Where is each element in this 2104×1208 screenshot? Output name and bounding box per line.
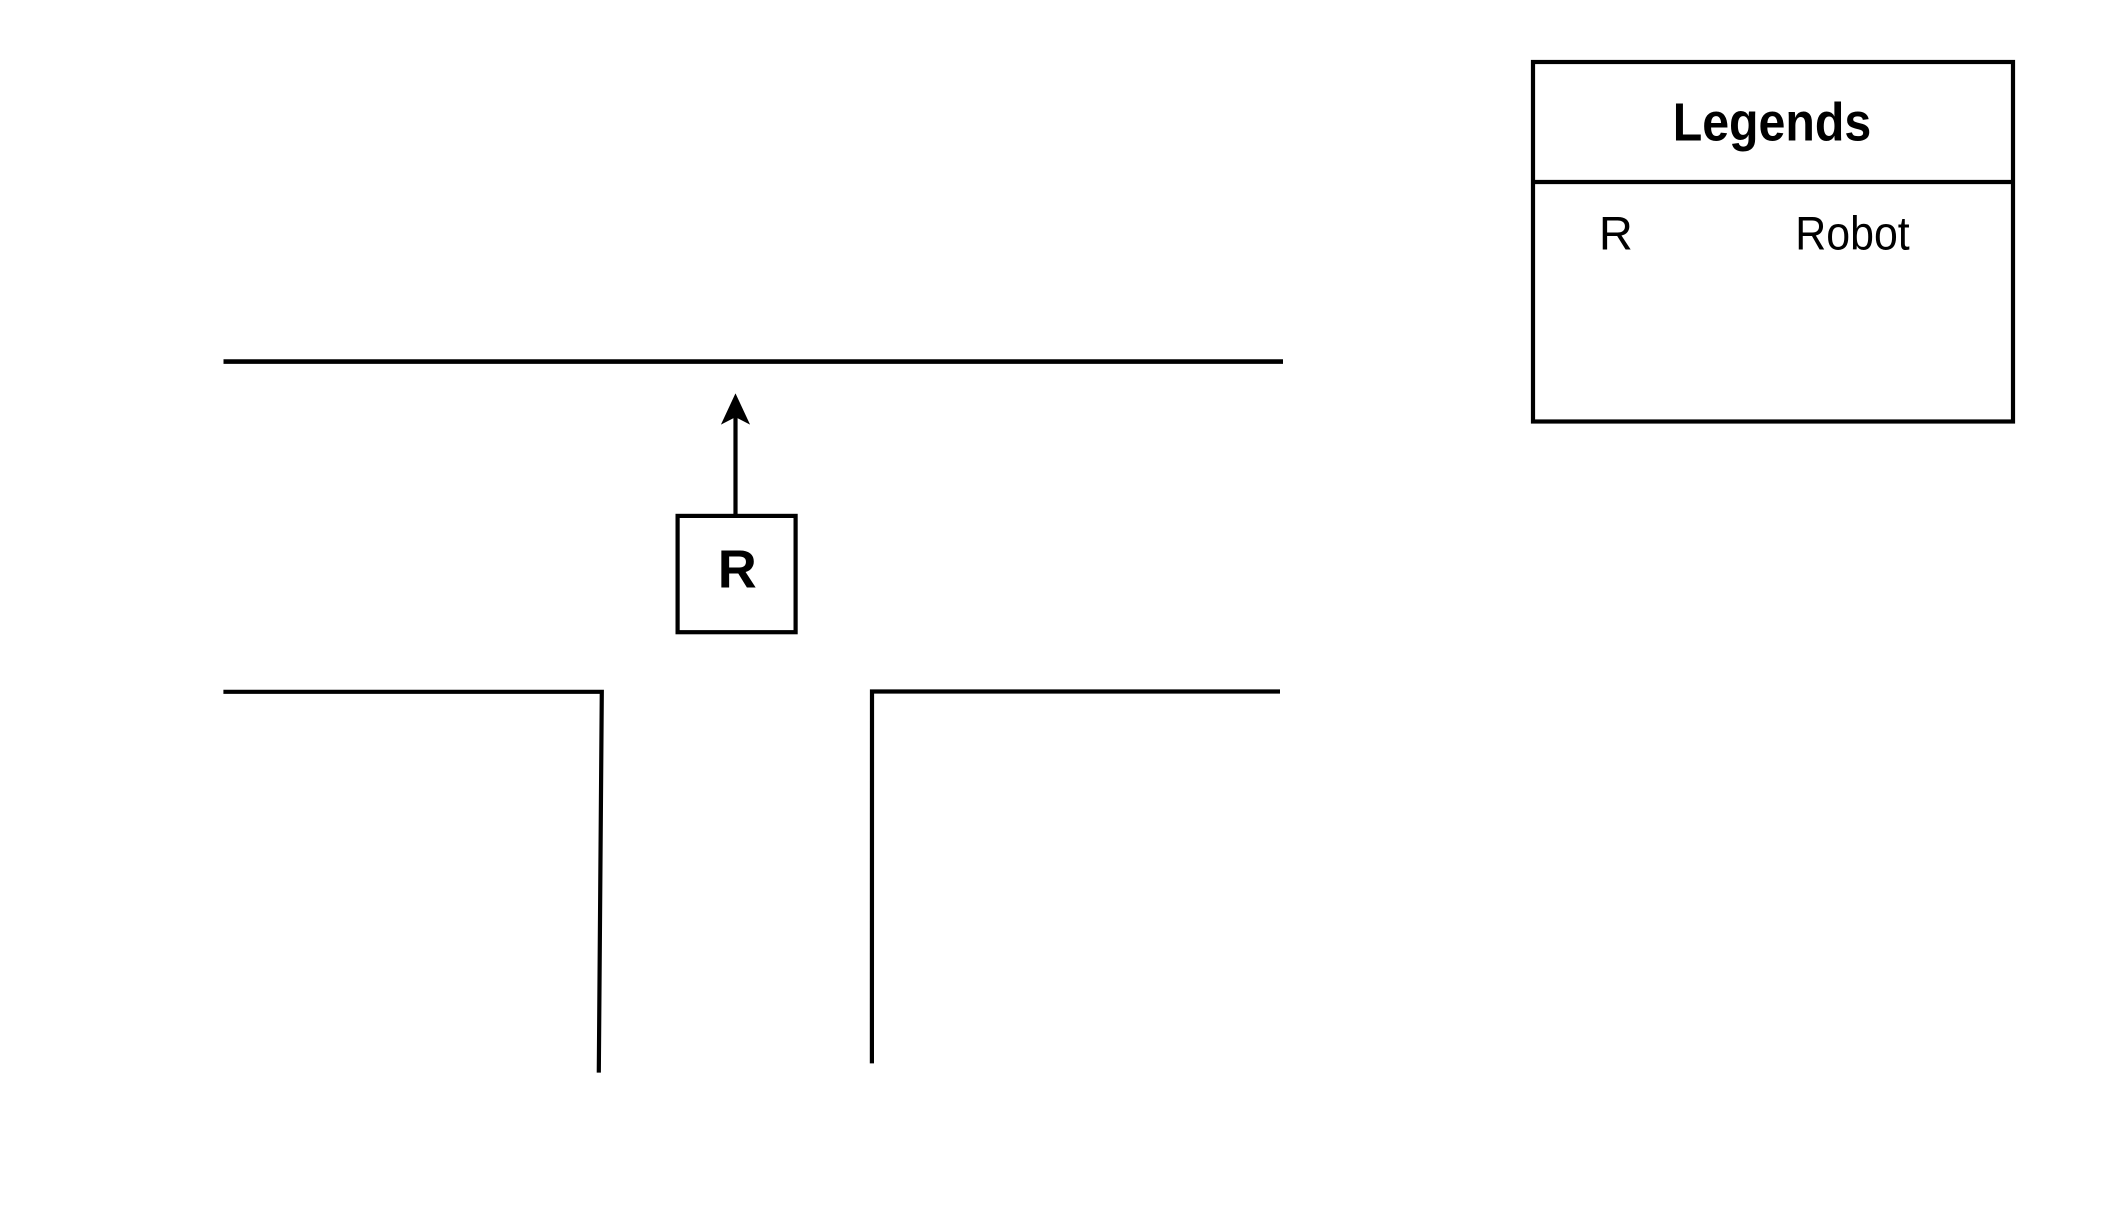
svg-text:R: R bbox=[1599, 207, 1633, 260]
svg-text:Legends: Legends bbox=[1673, 93, 1872, 153]
svg-text:Robot: Robot bbox=[1795, 207, 1909, 260]
legend divider bbox=[1533, 180, 2013, 184]
svg-text:R: R bbox=[718, 540, 757, 600]
legend box bbox=[1533, 62, 2013, 422]
wall W2 bottom-left L-shape bbox=[223, 692, 601, 1073]
wall W3 bottom-right L-shape bbox=[872, 692, 1280, 1064]
arrow shaft from robot bbox=[733, 411, 737, 514]
robot box R bbox=[678, 516, 796, 632]
wall W1 top horizontal bbox=[224, 359, 1284, 364]
arrowhead bbox=[722, 395, 749, 424]
